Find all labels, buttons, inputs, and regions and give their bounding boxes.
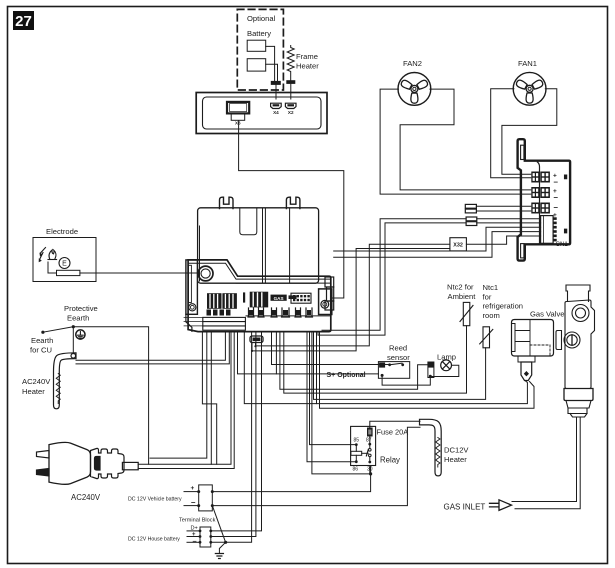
main unit boss inner bbox=[201, 269, 210, 278]
optional battery dashed box bbox=[237, 9, 283, 90]
svg-text:AC240V: AC240V bbox=[71, 493, 101, 502]
wire S+ pin2 to X32 area vertical bbox=[252, 249, 450, 351]
svg-text:for CU: for CU bbox=[30, 346, 52, 355]
main unit left band bbox=[186, 260, 198, 331]
main unit heatsink slats bbox=[184, 317, 245, 330]
wire unit to lamp top bbox=[280, 332, 428, 390]
wire house plus up to unit bbox=[211, 332, 256, 537]
wire fuse to dc heater bbox=[370, 421, 420, 427]
svg-text:Ambient: Ambient bbox=[448, 292, 477, 301]
svg-text:Fuse 20A: Fuse 20A bbox=[377, 428, 409, 437]
thermistor Ntc2 bbox=[460, 302, 473, 325]
wire battery terminal to X4 bbox=[275, 84, 277, 99]
wire relay 86 to unit bbox=[307, 332, 356, 462]
wire FAN1 left to AES terminal row1 bbox=[491, 89, 531, 178]
wire FAN2 right to AES terminal row2 bbox=[400, 89, 531, 190]
vehicle battery terminal block bbox=[184, 485, 214, 511]
main unit slab echo edge bbox=[188, 263, 331, 279]
electrode E circle bbox=[59, 258, 70, 269]
wire gas valve lead 2 bbox=[320, 332, 535, 409]
main unit connector block A1 bbox=[207, 293, 222, 309]
svg-text:X2: X2 bbox=[288, 110, 294, 115]
wire unit to CN1 a bbox=[334, 227, 541, 251]
wire unit stub to S+ line bbox=[275, 332, 277, 374]
thermistor Ntc1 bbox=[480, 327, 493, 348]
main unit right ear hole bbox=[321, 300, 329, 308]
DC12V heater tube bbox=[420, 419, 442, 476]
AES terminal row2 bbox=[531, 187, 558, 202]
relay K1 box bbox=[351, 426, 376, 465]
gas valve solenoid coil bbox=[512, 320, 554, 363]
fan FAN2 bbox=[398, 73, 431, 106]
wire splice lower right pair to CN1 bbox=[477, 218, 541, 220]
ignition control board outer bbox=[196, 93, 327, 134]
main unit connector block D pin header bbox=[291, 293, 311, 303]
battery cell 2 bbox=[247, 59, 266, 71]
wire CU stub to junction bbox=[43, 327, 73, 333]
svg-text:–: – bbox=[193, 537, 197, 546]
wire earth junction down to heater ring bbox=[72, 327, 74, 354]
svg-text:GAS: GAS bbox=[274, 296, 284, 301]
wire FAN1 right to AES terminal row1 bbox=[502, 89, 557, 175]
wire reed bottom to lamp bottom bbox=[382, 377, 430, 385]
wire frame heater to X2 bbox=[290, 83, 292, 99]
wire vehicle minus to dc heater bbox=[212, 427, 420, 505]
wire battery cell1 to bus bbox=[266, 46, 275, 81]
svg-text:Heater: Heater bbox=[444, 455, 467, 464]
svg-text:E: E bbox=[62, 261, 67, 268]
main unit top cover bbox=[198, 208, 319, 283]
wire unit to cord splice b bbox=[150, 332, 207, 459]
electrode box bbox=[33, 238, 96, 282]
svg-text:–: – bbox=[554, 178, 559, 187]
svg-text:Frame: Frame bbox=[296, 52, 318, 61]
svg-text:DC12V: DC12V bbox=[444, 446, 469, 455]
main unit bottom pins small left group bbox=[207, 310, 231, 316]
wire relay 85 to unit bbox=[310, 332, 357, 445]
wire board X6 down right to main unit right side bbox=[239, 121, 344, 298]
AES unit bottom tab slot bbox=[521, 244, 524, 258]
svg-text:Electrode: Electrode bbox=[46, 227, 78, 236]
svg-text:Reed: Reed bbox=[389, 344, 407, 353]
svg-text:for: for bbox=[483, 292, 492, 301]
gas pipe bbox=[512, 417, 577, 502]
battery cell 1 bbox=[247, 40, 266, 51]
X32 box bbox=[450, 238, 467, 251]
svg-text:S+ Optional: S+ Optional bbox=[327, 372, 366, 379]
wire unit to cord splice a bbox=[202, 332, 216, 465]
main unit connector block A2 bbox=[222, 293, 237, 309]
ground symbol bbox=[215, 554, 223, 559]
S+ auxiliary connector on unit bottom bbox=[250, 336, 263, 352]
svg-text:Heater: Heater bbox=[22, 387, 45, 396]
main unit front slab outline bbox=[188, 260, 331, 332]
svg-text:refrigeration: refrigeration bbox=[483, 302, 524, 311]
AC240V heater ring terminal bbox=[71, 354, 76, 359]
wire earth junction right and down to cord bbox=[73, 327, 148, 465]
svg-text:Relay: Relay bbox=[380, 456, 400, 465]
svg-text:sensor: sensor bbox=[387, 353, 410, 362]
svg-text:FAN1: FAN1 bbox=[518, 59, 537, 68]
wire house D+ up to unit bbox=[211, 332, 262, 531]
svg-text:DC 12V House battery: DC 12V House battery bbox=[128, 537, 180, 543]
svg-text:CN1: CN1 bbox=[556, 241, 569, 248]
node relay30 junction bbox=[369, 472, 372, 475]
wire splice lower left pair to unit bottom area bbox=[322, 219, 466, 331]
main unit small bar between connectors bbox=[243, 292, 245, 302]
gas valve body bbox=[556, 285, 595, 417]
house battery terminal block bbox=[187, 527, 212, 547]
wire vehicle plus to relay30 bbox=[212, 467, 370, 492]
node chassis bbox=[224, 541, 227, 544]
reed sensor bbox=[378, 362, 409, 379]
AES control unit U2 outline bbox=[518, 139, 571, 260]
board connector X6 lower step bbox=[231, 113, 245, 120]
inline splice connector lower bbox=[466, 217, 477, 226]
main unit bottom terminal stubs bbox=[248, 308, 313, 317]
svg-text:Optional: Optional bbox=[247, 14, 276, 23]
main unit right side connector stack bbox=[325, 277, 334, 310]
wire lamp loop bbox=[432, 365, 459, 376]
svg-text:room: room bbox=[483, 311, 500, 320]
AC240V plug bbox=[37, 442, 139, 484]
svg-text:Terminal Block: Terminal Block bbox=[179, 518, 216, 524]
relay internals bbox=[351, 437, 371, 464]
protective earth symbol bbox=[76, 330, 85, 339]
main unit cover notch bbox=[240, 209, 257, 235]
wire cord third conductor bbox=[210, 332, 212, 465]
wire battery cell2 to bus bbox=[266, 64, 278, 81]
svg-text:GAS INLET: GAS INLET bbox=[444, 502, 486, 511]
AES terminal row1 bbox=[531, 172, 558, 187]
board connector X6 body bbox=[227, 102, 249, 114]
AES unit top tab slot bbox=[521, 145, 524, 159]
figure number 27 bbox=[13, 11, 34, 30]
svg-text:Battery: Battery bbox=[247, 29, 271, 38]
svg-text:86: 86 bbox=[353, 467, 359, 473]
electrode flame symbol bbox=[48, 250, 57, 260]
board connector X2 bbox=[285, 103, 296, 108]
wire AC heater lead 2 bbox=[76, 332, 229, 364]
gas valve spade connector bbox=[521, 362, 532, 381]
wire mains cord bbox=[138, 332, 231, 465]
AES board inner left edge bbox=[537, 162, 539, 243]
wire unit to Ntc2 bbox=[284, 326, 467, 393]
svg-text:DC 12V Vehicle battery: DC 12V Vehicle battery bbox=[128, 497, 182, 503]
svg-text:–: – bbox=[554, 203, 559, 212]
svg-text:–: – bbox=[191, 498, 196, 507]
wire X32 right to CN1 bbox=[466, 236, 540, 244]
wire house minus to chassis and up bbox=[211, 332, 252, 543]
AC240V heater tube bbox=[54, 353, 77, 409]
main unit right ear bbox=[319, 289, 332, 315]
wire unit to reed top bbox=[272, 332, 389, 365]
wire unit to reed bottom S+ optional bbox=[238, 332, 379, 374]
DC12V heater zigzag bbox=[436, 438, 440, 468]
svg-text:Protective: Protective bbox=[64, 304, 98, 313]
wire FAN2 left to AES terminal row2 bbox=[380, 89, 531, 194]
board connector X4 bbox=[271, 103, 282, 108]
wire electrode to unit boss bbox=[80, 272, 197, 274]
AC240V heater zigzag bbox=[56, 374, 60, 404]
main unit cover seams bbox=[200, 209, 290, 284]
node earth junction bbox=[72, 325, 75, 328]
node eearth for CU bbox=[41, 331, 44, 334]
wire unit to relay30 net bbox=[312, 332, 371, 474]
svg-text:X4: X4 bbox=[273, 110, 279, 115]
main unit boss outer bbox=[198, 266, 213, 281]
fan FAN1 bbox=[513, 72, 546, 105]
electrode resistor bbox=[57, 270, 80, 275]
svg-text:Ntc2 for: Ntc2 for bbox=[447, 283, 474, 292]
wire AC heater lead 1 bbox=[76, 332, 225, 361]
svg-text:+: + bbox=[191, 485, 195, 492]
wire electrode internal bbox=[48, 262, 57, 273]
AES connector CN1 bbox=[541, 216, 557, 244]
svg-text:–: – bbox=[554, 193, 559, 202]
main unit connector block GAS bbox=[271, 295, 297, 301]
svg-text:AC240V: AC240V bbox=[22, 377, 51, 386]
svg-text:Eearth: Eearth bbox=[67, 314, 89, 323]
inline splice connector upper bbox=[465, 204, 531, 213]
frame heater FH zigzag bbox=[287, 46, 294, 81]
svg-text:Eearth: Eearth bbox=[31, 336, 53, 345]
wire unit to CN1 b bbox=[334, 232, 541, 258]
main unit slab face top edge bbox=[236, 282, 330, 284]
wire chassis node to ground bbox=[219, 542, 225, 553]
frame heater terminal bbox=[287, 81, 295, 84]
main unit connector block B bbox=[250, 292, 269, 308]
wire X32 left to S+ connector bbox=[257, 244, 450, 346]
svg-text:Ntc1: Ntc1 bbox=[483, 283, 499, 292]
svg-text:X32: X32 bbox=[453, 243, 463, 249]
svg-text:FAN2: FAN2 bbox=[403, 59, 422, 68]
wire unit to Ntc1 bbox=[314, 332, 486, 400]
wire gas valve lead 1 bbox=[316, 332, 318, 404]
main unit top mounting tab right bbox=[286, 197, 300, 208]
wire vehicle minus diagonal to chassis node bbox=[212, 506, 225, 543]
electrode spark symbol bbox=[39, 248, 46, 263]
fuse F1 bbox=[367, 428, 373, 437]
svg-text:85: 85 bbox=[354, 438, 360, 444]
ignition control board inner bbox=[203, 97, 322, 129]
main unit bottom apron line bbox=[246, 315, 331, 317]
AES unit right edge notches bbox=[565, 175, 567, 233]
svg-text:87: 87 bbox=[366, 438, 372, 444]
svg-text:Gas Valve: Gas Valve bbox=[530, 310, 564, 319]
gas inlet arrow bbox=[490, 500, 512, 511]
AES terminal row3 bbox=[531, 203, 558, 220]
svg-text:Heater: Heater bbox=[296, 62, 319, 71]
svg-text:X6: X6 bbox=[235, 121, 241, 126]
lamp bbox=[428, 360, 452, 378]
battery lead terminal bbox=[271, 81, 280, 84]
wire relay 30 down bbox=[369, 466, 371, 474]
svg-text:27: 27 bbox=[15, 13, 32, 30]
main unit top mounting tab left bbox=[220, 197, 234, 208]
